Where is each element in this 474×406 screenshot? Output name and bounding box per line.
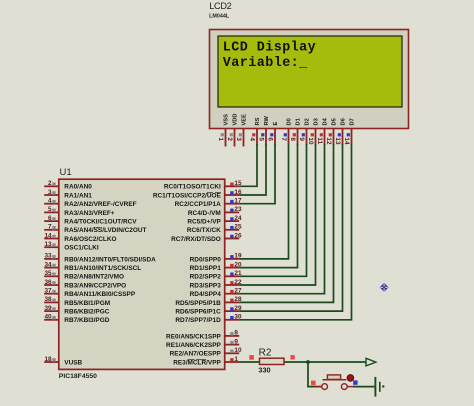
svg-text:7: 7: [280, 137, 287, 141]
svg-text:RD2/SPP2: RD2/SPP2: [190, 274, 222, 281]
svg-text:10: 10: [307, 137, 314, 145]
svg-text:RD6/SPP6/P1C: RD6/SPP6/P1C: [175, 309, 221, 316]
svg-text:6: 6: [48, 215, 52, 222]
svg-text:40: 40: [44, 314, 52, 321]
svg-text:22: 22: [234, 279, 242, 286]
svg-text:24: 24: [234, 215, 242, 222]
svg-text:RA0/AN0: RA0/AN0: [64, 184, 92, 191]
svg-text:2: 2: [48, 180, 52, 187]
svg-text:D5: D5: [332, 118, 338, 125]
svg-text:D2: D2: [305, 118, 311, 125]
svg-text:14: 14: [343, 137, 350, 145]
svg-text:27: 27: [234, 288, 242, 295]
svg-text:RD0/SPP0: RD0/SPP0: [190, 256, 222, 263]
svg-text:RA4/T0CKI/C1OUT/RCV: RA4/T0CKI/C1OUT/RCV: [64, 219, 137, 226]
svg-text:RE3/MCLR/VPP: RE3/MCLR/VPP: [173, 359, 221, 366]
svg-text:1: 1: [217, 137, 224, 141]
svg-text:29: 29: [234, 305, 242, 312]
svg-text:RA6/OSC2/CLKO: RA6/OSC2/CLKO: [64, 236, 116, 243]
svg-text:7: 7: [48, 224, 52, 231]
svg-text:23: 23: [234, 206, 242, 213]
svg-text:RA3/AN3/VREF+: RA3/AN3/VREF+: [64, 210, 115, 217]
svg-text:R2: R2: [259, 347, 272, 358]
svg-text:34: 34: [44, 261, 52, 268]
svg-text:5: 5: [258, 137, 265, 141]
svg-text:RB1/AN10/INT1/SCK/SCL: RB1/AN10/INT1/SCK/SCL: [64, 265, 141, 272]
svg-text:13: 13: [334, 137, 341, 145]
svg-text:8: 8: [234, 330, 238, 337]
svg-text:13: 13: [44, 241, 52, 248]
svg-text:RA5/AN4/SS/LVDIN/C2OUT: RA5/AN4/SS/LVDIN/C2OUT: [64, 227, 146, 234]
svg-text:D3: D3: [314, 118, 320, 125]
svg-text:RC5/D+/VP: RC5/D+/VP: [187, 219, 221, 226]
svg-text:330: 330: [258, 365, 270, 374]
svg-text:D0: D0: [287, 118, 293, 125]
svg-text:9: 9: [234, 338, 238, 345]
svg-text:38: 38: [44, 296, 52, 303]
svg-text:VDD: VDD: [233, 113, 239, 125]
svg-text:8: 8: [289, 137, 296, 141]
svg-text:RC4/D-/VM: RC4/D-/VM: [188, 210, 221, 217]
svg-text:RA2/AN2/VREF-/CVREF: RA2/AN2/VREF-/CVREF: [64, 201, 136, 208]
svg-text:3: 3: [235, 137, 242, 141]
svg-text:3: 3: [48, 189, 52, 196]
svg-text:14: 14: [44, 232, 52, 239]
svg-text:15: 15: [234, 180, 242, 187]
svg-text:RB5/KBI1/PGM: RB5/KBI1/PGM: [64, 300, 110, 307]
svg-text:RS: RS: [255, 117, 261, 125]
svg-text:LM044L: LM044L: [209, 13, 230, 19]
svg-text:RD5/SPP5/P1B: RD5/SPP5/P1B: [175, 300, 221, 307]
svg-text:VSS: VSS: [224, 114, 230, 126]
svg-text:RB0/AN12/INT0/FLT0/SDI/SDA: RB0/AN12/INT0/FLT0/SDI/SDA: [64, 256, 156, 263]
svg-text:26: 26: [234, 232, 242, 239]
svg-text:RC2/CCP1/P1A: RC2/CCP1/P1A: [175, 201, 222, 208]
svg-text:RA1/AN1: RA1/AN1: [64, 192, 92, 199]
svg-text:36: 36: [44, 279, 52, 286]
svg-text:10: 10: [234, 347, 242, 354]
svg-text:16: 16: [234, 189, 242, 196]
svg-text:39: 39: [44, 305, 52, 312]
svg-text:VUSB: VUSB: [64, 359, 82, 366]
svg-text:30: 30: [234, 314, 242, 321]
svg-text:RD7/SPP7/P1D: RD7/SPP7/P1D: [175, 317, 221, 324]
svg-text:RW: RW: [264, 115, 270, 125]
svg-text:21: 21: [234, 270, 242, 277]
svg-text:19: 19: [234, 253, 242, 260]
svg-text:5: 5: [48, 206, 52, 213]
svg-text:E: E: [273, 122, 279, 126]
svg-text:6: 6: [267, 137, 274, 141]
svg-text:4: 4: [249, 137, 256, 141]
svg-text:18: 18: [44, 356, 52, 363]
svg-text:Variable:_: Variable:_: [223, 56, 308, 71]
svg-text:LCD Display: LCD Display: [223, 41, 316, 56]
svg-text:25: 25: [234, 224, 242, 231]
svg-text:9: 9: [298, 137, 305, 141]
svg-text:20: 20: [234, 261, 242, 268]
svg-text:RD4/SPP4: RD4/SPP4: [190, 291, 222, 298]
svg-text:RC1/T1OSI/CCP2/UOE: RC1/T1OSI/CCP2/UOE: [153, 192, 222, 199]
svg-text:D1: D1: [296, 118, 302, 125]
svg-text:RE1/AN6/CK2SPP: RE1/AN6/CK2SPP: [166, 342, 221, 349]
svg-text:OSC1/CLKI: OSC1/CLKI: [64, 245, 99, 252]
svg-text:12: 12: [325, 137, 332, 145]
svg-text:35: 35: [44, 270, 52, 277]
svg-text:RC7/RX/DT/SDO: RC7/RX/DT/SDO: [171, 236, 221, 243]
svg-text:1: 1: [234, 356, 238, 363]
svg-text:RC0/T1OSO/T1CKI: RC0/T1OSO/T1CKI: [164, 184, 221, 191]
svg-text:RE2/AN7/OESPP: RE2/AN7/OESPP: [170, 351, 222, 358]
svg-text:2: 2: [226, 137, 233, 141]
svg-text:RB3/AN9/CCP2/VPO: RB3/AN9/CCP2/VPO: [64, 282, 126, 289]
svg-text:D4: D4: [323, 117, 329, 125]
svg-text:U1: U1: [60, 167, 72, 178]
svg-text:PIC18F4550: PIC18F4550: [59, 373, 97, 380]
svg-text:11: 11: [316, 137, 323, 144]
svg-text:RB4/AN11/KBI0/CSSPP: RB4/AN11/KBI0/CSSPP: [64, 291, 136, 298]
svg-text:28: 28: [234, 296, 242, 303]
svg-text:37: 37: [44, 288, 52, 295]
svg-text:RC6/TX/CK: RC6/TX/CK: [187, 227, 221, 234]
svg-text:RB2/AN8/INT2/VMO: RB2/AN8/INT2/VMO: [64, 274, 124, 281]
svg-text:D7: D7: [350, 118, 356, 125]
svg-text:RB7/KBI3/PGD: RB7/KBI3/PGD: [64, 317, 109, 324]
svg-text:17: 17: [234, 198, 242, 205]
svg-text:33: 33: [44, 253, 52, 260]
svg-text:4: 4: [48, 198, 52, 205]
svg-text:RD3/SPP3: RD3/SPP3: [190, 282, 222, 289]
svg-text:RB6/KBI2/PGC: RB6/KBI2/PGC: [64, 309, 109, 316]
svg-text:RE0/AN5/CK1SPP: RE0/AN5/CK1SPP: [166, 333, 221, 340]
svg-text:D6: D6: [341, 118, 347, 125]
svg-text:VEE: VEE: [242, 114, 248, 126]
svg-text:LCD2: LCD2: [209, 1, 231, 11]
svg-text:RD1/SPP1: RD1/SPP1: [190, 265, 222, 272]
